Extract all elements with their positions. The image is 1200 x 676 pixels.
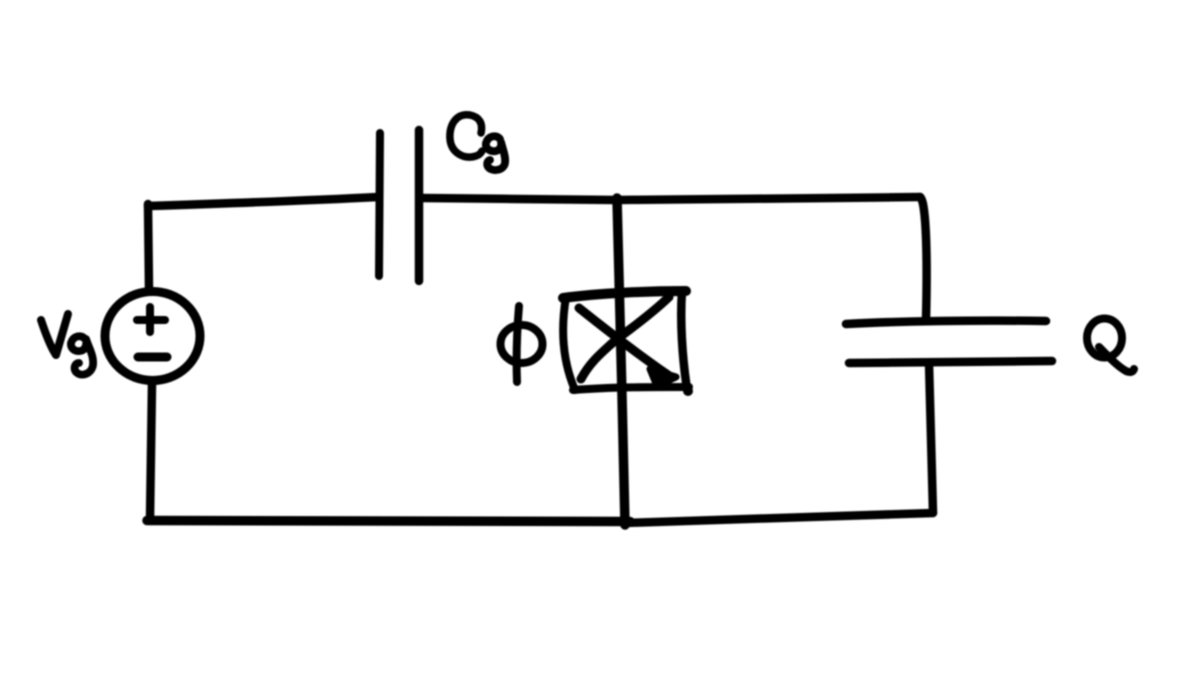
Josephson junction box right edge — [681, 291, 687, 389]
minus sign inside source — [138, 353, 167, 362]
junction X diagonal end blob — [650, 369, 676, 386]
wire: middle vertical branch (through junction box) — [617, 198, 625, 525]
label Vg : letter V — [41, 314, 68, 355]
label Cg : letter C — [450, 115, 482, 157]
capacitor Q top plate — [846, 321, 1046, 324]
label phi : vertical bar — [517, 306, 519, 382]
plus sign inside source — [137, 307, 165, 332]
capacitor Cg left plate — [379, 133, 380, 276]
wire: top horizontal (Cg right plate to right corner) — [422, 197, 920, 200]
Josephson junction box left edge — [563, 297, 575, 390]
label Cg : subscript g — [486, 136, 505, 170]
Josephson junction box bottom edge — [573, 387, 689, 390]
capacitor Cg right plate — [415, 130, 424, 281]
wire: below source down to bottom-left corner — [150, 383, 152, 520]
label Vg : subscript g — [71, 336, 93, 374]
Josephson junction box top edge — [563, 291, 686, 298]
wire: left vertical (top corner down to source top) — [148, 204, 149, 290]
voltage source V_g circle — [105, 292, 200, 381]
wire: right vertical upper (top corner to capacitor) — [920, 197, 927, 320]
label Q : oval — [1087, 319, 1122, 358]
wire: bottom horizontal right loop — [624, 513, 933, 523]
label phi : circle — [501, 325, 543, 363]
wire: right vertical lower (capacitor to bottom corner) — [929, 363, 933, 513]
wire: bottom horizontal left loop — [147, 521, 630, 522]
junction box corner dot bottom-right — [683, 386, 693, 396]
wire: top-left horizontal (source to Cg left plate) — [148, 197, 378, 206]
label Q : tail — [1099, 347, 1134, 372]
junction X diagonal (top-left to bottom-right) — [579, 308, 668, 375]
capacitor Q bottom plate — [849, 361, 1052, 363]
junction X diagonal (top-right to bottom-left) — [581, 297, 669, 379]
